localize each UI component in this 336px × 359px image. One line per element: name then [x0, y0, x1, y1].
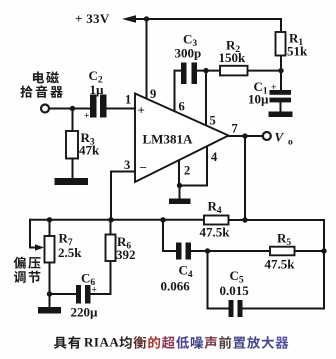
- resistor R3: [72, 109, 74, 132]
- label: pickup 电磁: [33, 71, 44, 83]
- junction dot pin5 node: [203, 68, 208, 73]
- ground below R3: [55, 178, 89, 185]
- svg-text:7: 7: [232, 122, 238, 136]
- wire pin 5: [205, 71, 207, 126]
- svg-text:0.066: 0.066: [161, 279, 191, 294]
- label: pickup 拾音器: [20, 86, 32, 98]
- svg-text:392: 392: [116, 247, 136, 262]
- svg-text:47k: 47k: [79, 143, 100, 158]
- capacitor C1: [280, 71, 282, 90]
- resistor R6: [110, 220, 112, 235]
- wire supply rail: [133, 19, 281, 32]
- capacitor C5: [229, 300, 234, 317]
- resistor R4: [204, 216, 229, 225]
- svg-text:9: 9: [150, 87, 156, 101]
- ground below R7: [49, 294, 51, 307]
- wire output feedback drop: [244, 136, 246, 220]
- svg-text:1: 1: [125, 93, 131, 107]
- svg-text:V: V: [275, 130, 285, 145]
- wire C2 to pin 1: [107, 108, 136, 110]
- wire input to C2: [49, 108, 90, 110]
- label: bias adjust 调节: [14, 271, 26, 283]
- resistor R1: [276, 32, 286, 56]
- resistor R5: [270, 247, 295, 256]
- svg-text:3: 3: [124, 158, 130, 172]
- junction dot C4 R5: [205, 248, 210, 253]
- svg-text:47.5k: 47.5k: [200, 225, 231, 240]
- potentiometer R7: [49, 220, 51, 236]
- capacitor C4: [176, 243, 182, 260]
- svg-text:150k: 150k: [219, 50, 247, 65]
- junction dot R3 top: [70, 106, 75, 111]
- wire R5 left: [208, 250, 271, 252]
- svg-text:0.015: 0.015: [220, 283, 250, 298]
- junction dot pin3 R6: [108, 217, 113, 222]
- svg-text:10µ: 10µ: [248, 92, 269, 107]
- wire R5 right: [295, 250, 325, 252]
- svg-text:+ 33V: + 33V: [75, 11, 110, 26]
- wire R2 right: [248, 70, 282, 72]
- svg-text:4: 4: [211, 150, 218, 164]
- label: bias adjust 偏压: [14, 257, 26, 269]
- feedback rail: [30, 219, 204, 221]
- svg-text:+: +: [84, 112, 89, 122]
- svg-text:+: +: [138, 103, 145, 118]
- svg-text:2: 2: [184, 164, 190, 178]
- wire R2 left: [197, 70, 220, 72]
- ground below pin2: [179, 186, 181, 199]
- wire C3 to pin 6: [175, 71, 182, 113]
- junction dot pin9 rail: [144, 16, 149, 21]
- wire C4 riser: [163, 220, 176, 251]
- R7 wiper arrow: [30, 220, 36, 248]
- wire R4 right to corner: [229, 219, 325, 221]
- svg-text:6: 6: [179, 100, 185, 114]
- junction dot node R1 R2 C1: [278, 68, 283, 73]
- svg-text:1µ: 1µ: [90, 82, 105, 97]
- capacitor C2: [90, 95, 97, 118]
- wire right edge: [323, 220, 325, 309]
- caption 具有RIAA均衡的超低噪声前置放大器: [54, 337, 67, 349]
- junction dot pin2 ground: [177, 183, 182, 188]
- svg-text:+: +: [271, 83, 276, 93]
- svg-text:220µ: 220µ: [71, 305, 99, 320]
- ground below C1: [269, 112, 293, 118]
- input terminal circle: [41, 105, 49, 113]
- output terminal circle: [263, 132, 271, 140]
- capacitor C6: [76, 285, 81, 304]
- wire pin 3 to feedback rail: [111, 172, 135, 220]
- supply arrow: [122, 15, 136, 23]
- svg-text:RIAA: RIAA: [84, 335, 119, 350]
- wire pins 2 and 4: [179, 147, 207, 186]
- wire C6 left: [50, 293, 77, 295]
- wire C6 right to R6: [91, 261, 111, 294]
- resistor R2: [220, 66, 248, 76]
- svg-text:LM381A: LM381A: [143, 132, 193, 147]
- op-amp U1 LM381A triangle: [135, 94, 229, 183]
- svg-text:o: o: [288, 138, 293, 148]
- wire C5 right: [243, 308, 325, 310]
- junction dot C4 branch: [160, 217, 165, 222]
- wire pin 7 to output: [229, 135, 263, 137]
- svg-text:2.5k: 2.5k: [58, 245, 82, 260]
- svg-text:300p: 300p: [175, 46, 202, 61]
- svg-text:47.5k: 47.5k: [265, 257, 296, 272]
- wire C5 branch: [208, 251, 229, 309]
- svg-text:−: −: [140, 160, 147, 175]
- junction dot R5 right: [321, 248, 326, 253]
- junction dot output feedback: [242, 217, 247, 222]
- capacitor C3: [181, 63, 187, 85]
- junction dot output: [242, 133, 247, 138]
- junction dot R7 bottom C6: [47, 291, 52, 296]
- svg-text:5: 5: [210, 114, 216, 128]
- svg-text:51k: 51k: [287, 44, 308, 59]
- wire pin 9: [146, 19, 148, 100]
- junction dot R7 top: [47, 217, 52, 222]
